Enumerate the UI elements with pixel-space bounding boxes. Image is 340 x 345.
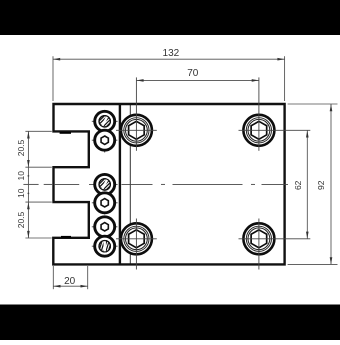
svg-text:10: 10 [16, 171, 26, 181]
svg-text:10: 10 [16, 188, 26, 198]
svg-text:70: 70 [187, 68, 199, 79]
svg-text:92: 92 [316, 180, 326, 190]
svg-text:132: 132 [163, 48, 180, 59]
svg-text:20.5: 20.5 [16, 211, 26, 228]
svg-text:20: 20 [64, 276, 76, 287]
svg-text:62: 62 [293, 180, 303, 190]
svg-text:20.5: 20.5 [16, 139, 26, 156]
